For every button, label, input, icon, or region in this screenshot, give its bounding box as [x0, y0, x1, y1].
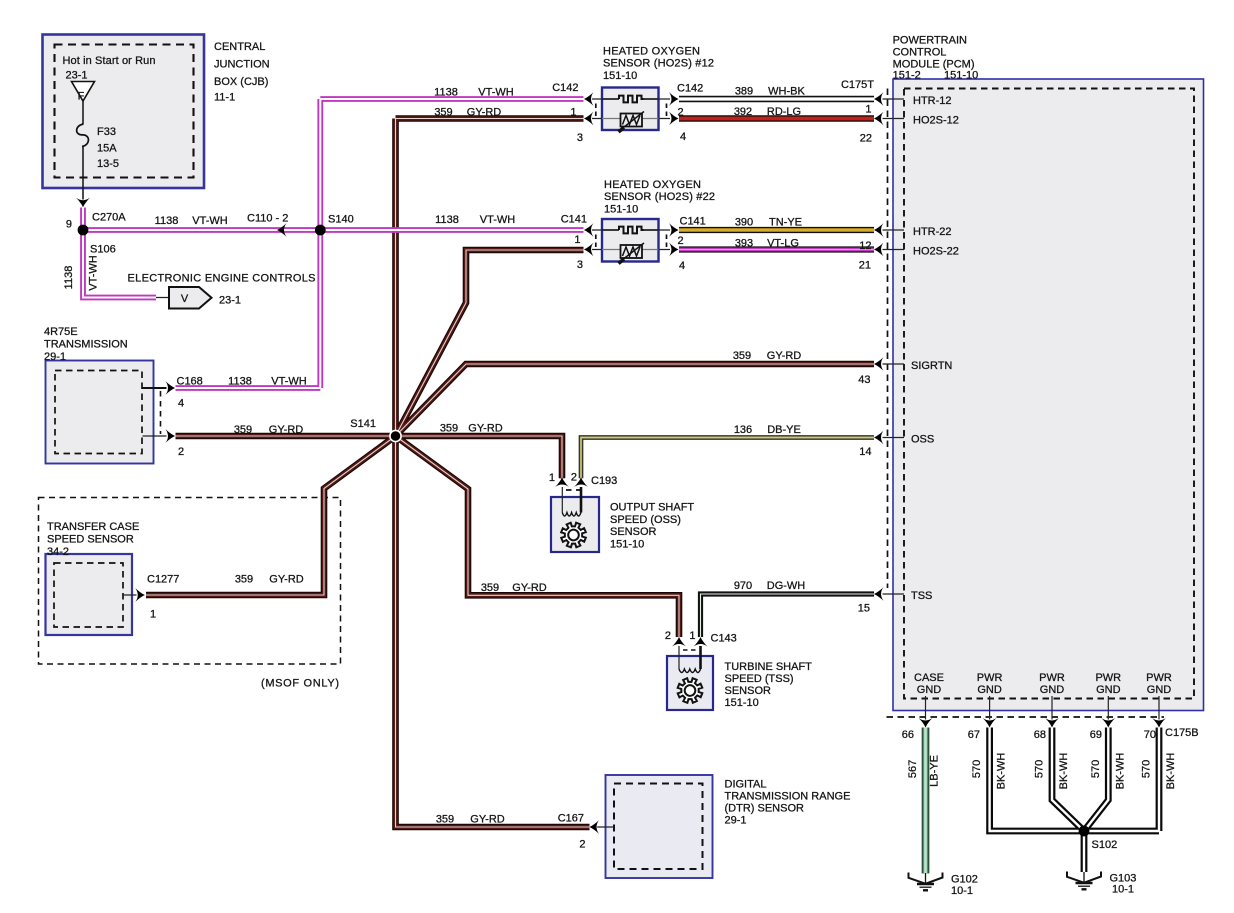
- svg-text:10-1: 10-1: [951, 885, 973, 897]
- svg-text:13-5: 13-5: [97, 158, 119, 170]
- svg-text:151-10: 151-10: [725, 697, 759, 709]
- svg-text:OSS: OSS: [911, 434, 934, 446]
- svg-text:GND: GND: [917, 684, 942, 696]
- svg-text:C175T: C175T: [841, 79, 874, 91]
- svg-text:34-2: 34-2: [47, 546, 69, 558]
- svg-text:GY-RD: GY-RD: [468, 423, 502, 435]
- svg-text:CASE: CASE: [914, 672, 944, 684]
- svg-text:68: 68: [1034, 729, 1046, 741]
- svg-text:C142: C142: [677, 83, 703, 95]
- svg-text:GND: GND: [1096, 684, 1121, 696]
- svg-text:359: 359: [733, 350, 751, 362]
- svg-text:1: 1: [865, 104, 871, 116]
- svg-text:9: 9: [66, 219, 72, 231]
- svg-text:POWERTRAIN: POWERTRAIN: [893, 35, 967, 47]
- svg-text:JUNCTION: JUNCTION: [214, 59, 270, 71]
- svg-text:1: 1: [150, 609, 156, 621]
- svg-text:TRANSMISSION: TRANSMISSION: [44, 339, 128, 351]
- svg-text:69: 69: [1090, 729, 1102, 741]
- svg-text:1: 1: [574, 234, 580, 246]
- svg-text:GND: GND: [977, 684, 1002, 696]
- svg-text:3: 3: [577, 259, 583, 271]
- svg-text:S141: S141: [350, 418, 376, 430]
- svg-text:SENSOR (HO2S) #12: SENSOR (HO2S) #12: [603, 58, 714, 70]
- svg-text:PWR: PWR: [977, 672, 1003, 684]
- svg-text:G102: G102: [951, 874, 978, 886]
- svg-text:359: 359: [434, 107, 452, 119]
- svg-text:151-10: 151-10: [944, 70, 978, 82]
- svg-text:VT-WH: VT-WH: [88, 255, 100, 290]
- svg-text:2: 2: [178, 446, 184, 458]
- svg-text:S106: S106: [90, 244, 116, 256]
- svg-text:1138: 1138: [63, 266, 75, 290]
- svg-text:CONTROL: CONTROL: [893, 47, 947, 59]
- svg-text:HTR-22: HTR-22: [913, 226, 952, 238]
- svg-text:43: 43: [858, 374, 870, 386]
- svg-text:4: 4: [178, 398, 184, 410]
- svg-text:HO2S-22: HO2S-22: [913, 246, 959, 258]
- svg-text:HO2S-12: HO2S-12: [913, 115, 959, 127]
- svg-text:GND: GND: [1040, 684, 1065, 696]
- svg-text:15: 15: [858, 603, 870, 615]
- svg-text:TURBINE SHAFT: TURBINE SHAFT: [725, 661, 813, 673]
- svg-text:21: 21: [859, 260, 871, 272]
- svg-text:PWR: PWR: [1039, 672, 1065, 684]
- svg-text:VT-WH: VT-WH: [480, 214, 515, 226]
- svg-text:567: 567: [907, 760, 919, 778]
- svg-text:151-2: 151-2: [893, 70, 921, 82]
- svg-text:1138: 1138: [155, 215, 179, 227]
- svg-text:PWR: PWR: [1095, 672, 1121, 684]
- svg-text:TSS: TSS: [911, 590, 932, 602]
- svg-text:TRANSFER CASE: TRANSFER CASE: [47, 521, 139, 533]
- svg-text:10-1: 10-1: [1112, 884, 1134, 896]
- svg-text:15A: 15A: [97, 143, 117, 155]
- svg-text:570: 570: [1090, 760, 1102, 778]
- svg-text:VT-WH: VT-WH: [271, 376, 306, 388]
- svg-text:C141: C141: [680, 216, 706, 228]
- svg-text:GY-RD: GY-RD: [269, 424, 303, 436]
- svg-text:151-10: 151-10: [603, 70, 637, 82]
- svg-text:F33: F33: [97, 126, 116, 138]
- svg-text:SENSOR: SENSOR: [725, 685, 772, 697]
- svg-text:C1277: C1277: [147, 574, 179, 586]
- svg-text:HTR-12: HTR-12: [913, 95, 952, 107]
- svg-text:4R75E: 4R75E: [44, 326, 78, 338]
- svg-text:TN-YE: TN-YE: [769, 217, 802, 229]
- svg-text:359: 359: [234, 424, 252, 436]
- svg-text:BK-WH: BK-WH: [1165, 753, 1177, 790]
- svg-text:359: 359: [440, 423, 458, 435]
- svg-text:GY-RD: GY-RD: [512, 582, 546, 594]
- svg-text:F: F: [78, 91, 85, 103]
- svg-text:LB-YE: LB-YE: [929, 755, 941, 787]
- svg-text:VT-WH: VT-WH: [192, 215, 227, 227]
- svg-text:(MSOF ONLY): (MSOF ONLY): [261, 678, 339, 690]
- svg-text:HEATED OXYGEN: HEATED OXYGEN: [604, 179, 701, 191]
- svg-text:GY-RD: GY-RD: [269, 574, 303, 586]
- svg-text:23-1: 23-1: [219, 295, 241, 307]
- svg-text:393: 393: [735, 238, 753, 250]
- svg-text:29-1: 29-1: [725, 815, 747, 827]
- svg-text:970: 970: [734, 580, 752, 592]
- svg-text:SPEED (TSS): SPEED (TSS): [725, 673, 794, 685]
- svg-text:DIGITAL: DIGITAL: [725, 779, 767, 791]
- svg-text:2: 2: [678, 107, 684, 119]
- svg-text:C167: C167: [558, 813, 584, 825]
- svg-text:DG-WH: DG-WH: [767, 580, 806, 592]
- svg-text:359: 359: [436, 814, 454, 826]
- svg-text:1: 1: [689, 630, 695, 642]
- svg-text:29-1: 29-1: [44, 351, 66, 363]
- svg-text:359: 359: [235, 574, 253, 586]
- svg-text:TRANSMISSION RANGE: TRANSMISSION RANGE: [725, 791, 851, 803]
- svg-text:(DTR) SENSOR: (DTR) SENSOR: [725, 803, 805, 815]
- svg-text:ELECTRONIC ENGINE CONTROLS: ELECTRONIC ENGINE CONTROLS: [128, 273, 316, 285]
- svg-text:C193: C193: [591, 475, 617, 487]
- svg-text:1138: 1138: [434, 87, 458, 99]
- svg-text:HEATED OXYGEN: HEATED OXYGEN: [603, 46, 700, 58]
- svg-text:SPEED (OSS): SPEED (OSS): [610, 514, 681, 526]
- svg-text:11-1: 11-1: [214, 92, 235, 104]
- svg-text:BK-WH: BK-WH: [1058, 753, 1070, 790]
- svg-text:VT-LG: VT-LG: [767, 238, 799, 250]
- svg-text:12: 12: [859, 240, 871, 252]
- svg-text:C141: C141: [561, 214, 587, 226]
- svg-text:OUTPUT SHAFT: OUTPUT SHAFT: [610, 502, 694, 514]
- svg-text:2: 2: [579, 839, 585, 851]
- svg-text:2: 2: [571, 472, 577, 484]
- svg-text:1138: 1138: [228, 376, 252, 388]
- svg-text:2: 2: [678, 235, 684, 247]
- svg-text:GND: GND: [1147, 684, 1172, 696]
- svg-text:Hot in Start or Run: Hot in Start or Run: [63, 55, 156, 67]
- svg-text:1138: 1138: [435, 214, 459, 226]
- svg-text:2: 2: [665, 630, 671, 642]
- svg-text:70: 70: [1144, 729, 1156, 741]
- svg-text:WH-BK: WH-BK: [768, 86, 805, 98]
- svg-text:BK-WH: BK-WH: [1114, 753, 1126, 790]
- svg-text:3: 3: [577, 132, 583, 144]
- svg-text:CENTRAL: CENTRAL: [214, 41, 265, 53]
- svg-text:67: 67: [968, 729, 980, 741]
- svg-text:151-10: 151-10: [610, 538, 644, 550]
- svg-text:VT-WH: VT-WH: [478, 87, 513, 99]
- svg-text:SENSOR (HO2S) #22: SENSOR (HO2S) #22: [604, 191, 715, 203]
- svg-text:22: 22: [860, 133, 872, 145]
- svg-text:151-10: 151-10: [604, 203, 638, 215]
- svg-text:4: 4: [679, 260, 685, 272]
- svg-text:136: 136: [734, 424, 752, 436]
- svg-text:570: 570: [971, 760, 983, 778]
- svg-text:66: 66: [902, 729, 914, 741]
- svg-text:C143: C143: [711, 633, 737, 645]
- svg-text:RD-LG: RD-LG: [767, 106, 801, 118]
- svg-text:14: 14: [859, 446, 871, 458]
- svg-text:BOX (CJB): BOX (CJB): [214, 76, 268, 88]
- svg-text:359: 359: [481, 582, 499, 594]
- svg-text:GY-RD: GY-RD: [767, 350, 801, 362]
- svg-text:S140: S140: [328, 214, 354, 226]
- svg-text:C270A: C270A: [92, 212, 126, 224]
- svg-text:SPEED SENSOR: SPEED SENSOR: [47, 534, 134, 546]
- svg-text:4: 4: [680, 131, 686, 143]
- svg-text:GY-RD: GY-RD: [470, 814, 504, 826]
- svg-text:570: 570: [1141, 760, 1153, 778]
- svg-text:1: 1: [570, 107, 576, 119]
- svg-text:389: 389: [735, 86, 753, 98]
- svg-text:392: 392: [734, 106, 752, 118]
- svg-text:C142: C142: [552, 82, 578, 94]
- svg-text:C110 - 2: C110 - 2: [247, 213, 288, 225]
- svg-text:C175B: C175B: [1165, 727, 1199, 739]
- svg-text:S102: S102: [1092, 839, 1118, 851]
- svg-text:SIGRTN: SIGRTN: [911, 360, 952, 372]
- svg-text:1: 1: [549, 472, 555, 484]
- svg-text:GY-RD: GY-RD: [467, 107, 501, 119]
- svg-text:390: 390: [735, 217, 753, 229]
- svg-text:SENSOR: SENSOR: [610, 526, 657, 538]
- svg-text:23-1: 23-1: [66, 70, 88, 82]
- svg-text:570: 570: [1034, 760, 1046, 778]
- svg-text:DB-YE: DB-YE: [767, 424, 801, 436]
- svg-text:PWR: PWR: [1146, 672, 1172, 684]
- svg-text:BK-WH: BK-WH: [996, 753, 1008, 790]
- svg-text:V: V: [181, 293, 189, 305]
- svg-text:C168: C168: [177, 376, 203, 388]
